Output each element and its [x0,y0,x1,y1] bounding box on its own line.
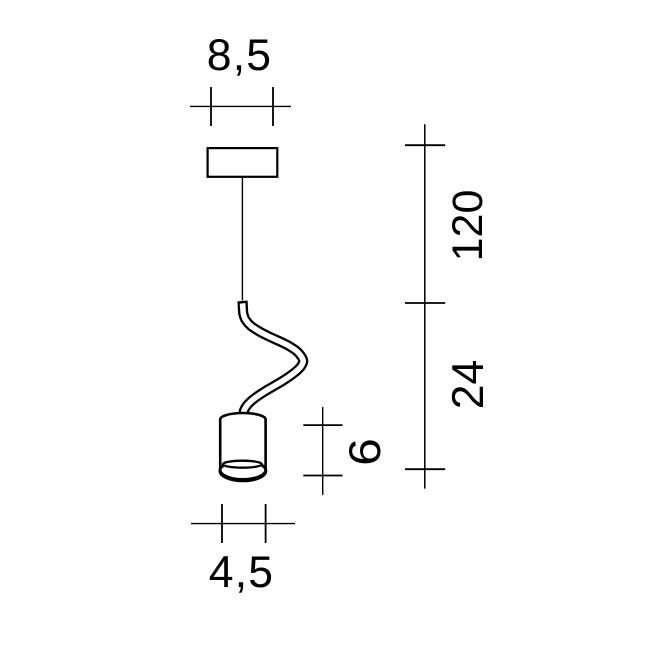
svg-text:120: 120 [444,190,492,262]
flexible arm tube inner white [243,303,304,419]
lamp bottom inner opening ellipse [223,461,262,468]
suspension cable wire [241,177,243,301]
bottom dimension tick right [265,504,267,543]
bottom dimension line [191,523,295,525]
top dimension line [190,105,291,107]
top dimension tick left [210,87,212,126]
top dimension tick right [272,87,274,126]
right dimension middle tick [405,302,445,304]
right dimension bottom tick [405,468,445,470]
lamp bottom outer rim ellipse [220,461,266,481]
lamp cylinder body [220,413,265,479]
svg-text:24: 24 [444,360,493,410]
svg-text:6: 6 [340,438,390,466]
bottom dimension tick left [221,504,223,543]
ceiling canopy rectangle [208,148,278,177]
right dimension main vertical line [424,124,426,488]
small dimension 6 vertical line [322,407,324,495]
small dimension 6 top tick [303,424,342,426]
small dimension 6 bottom tick [303,475,342,477]
flexible arm tube outer [243,301,304,419]
right dimension top tick [405,144,445,146]
svg-text:4,5: 4,5 [209,548,274,597]
svg-text:8,5: 8,5 [207,31,272,80]
